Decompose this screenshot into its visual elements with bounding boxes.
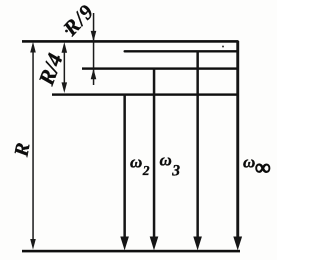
arrow omega3 (from n=3 level down) bbox=[150, 68, 159, 250]
level line n=2 bbox=[52, 93, 239, 95]
level line n=infinity (top bar) bbox=[22, 40, 239, 43]
arrow omega2 (from n=2 level down) bbox=[120, 94, 129, 250]
arrow omega-infinity (right vertical from top bar down) bbox=[233, 41, 242, 250]
level line n=3 bbox=[82, 67, 239, 69]
level line n=4 bbox=[124, 50, 239, 52]
ground level line (bottom) bbox=[22, 250, 240, 253]
arrow omega4 (from n=4 level down) bbox=[193, 51, 202, 250]
dimension R/4: vertical line with arrows both ends bbox=[62, 42, 68, 93]
scan speck near top right bbox=[222, 46, 224, 48]
dimension R/9: line above top bar with down arrow, and up arrow below n=3 line bbox=[91, 13, 97, 85]
dimension R: vertical line with arrows both ends bbox=[30, 42, 36, 250]
